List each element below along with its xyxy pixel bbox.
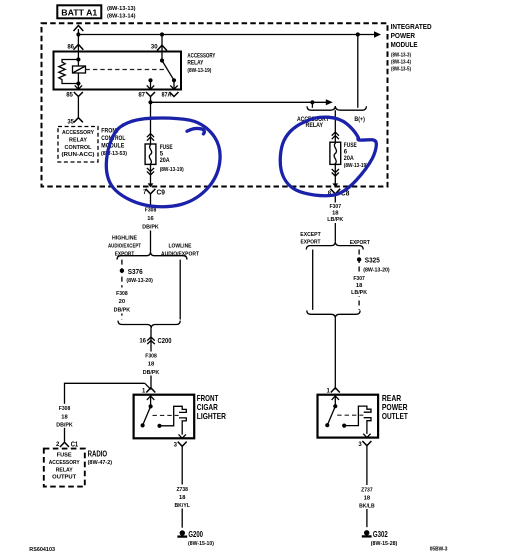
svg-text:ACCESSORY: ACCESSORY bbox=[49, 460, 80, 466]
svg-text:LB/PK: LB/PK bbox=[351, 290, 368, 296]
svg-text:F308: F308 bbox=[145, 354, 157, 360]
svg-text:OUTPUT: OUTPUT bbox=[52, 475, 77, 481]
svg-text:RADIO: RADIO bbox=[88, 450, 108, 459]
svg-text:AUDIO/EXCEPT: AUDIO/EXCEPT bbox=[108, 243, 141, 249]
svg-text:35: 35 bbox=[67, 120, 74, 126]
svg-text:(8W-13-14): (8W-13-14) bbox=[107, 14, 136, 20]
svg-text:(8W-13-20): (8W-13-20) bbox=[126, 278, 153, 284]
svg-text:(8W-15-28): (8W-15-28) bbox=[371, 541, 398, 547]
svg-text:ACCESSORY: ACCESSORY bbox=[62, 130, 94, 136]
svg-text:G200: G200 bbox=[188, 530, 203, 539]
svg-text:INTEGRATED: INTEGRATED bbox=[391, 22, 432, 31]
svg-text:RELAY: RELAY bbox=[306, 122, 324, 129]
svg-text:FUSE: FUSE bbox=[344, 143, 357, 149]
svg-text:DB/PK: DB/PK bbox=[56, 422, 73, 428]
svg-text:85: 85 bbox=[66, 93, 73, 99]
svg-text:EXPORT: EXPORT bbox=[350, 240, 370, 246]
svg-text:(8W-13-13): (8W-13-13) bbox=[107, 6, 136, 12]
svg-text:RS604103: RS604103 bbox=[29, 547, 55, 553]
svg-text:16: 16 bbox=[139, 339, 146, 345]
svg-text:Z738: Z738 bbox=[176, 487, 188, 493]
svg-text:30: 30 bbox=[151, 44, 158, 50]
svg-text:87A: 87A bbox=[162, 93, 173, 99]
svg-text:18: 18 bbox=[179, 495, 186, 501]
svg-text:86: 86 bbox=[67, 44, 74, 50]
svg-text:B(+): B(+) bbox=[354, 116, 365, 123]
svg-text:F308: F308 bbox=[145, 207, 157, 213]
svg-text:F308: F308 bbox=[116, 291, 128, 297]
svg-text:EXPORT: EXPORT bbox=[115, 251, 135, 257]
svg-text:(8W-13-3): (8W-13-3) bbox=[391, 53, 411, 59]
svg-text:(8W-13-19): (8W-13-19) bbox=[187, 68, 211, 74]
svg-text:BATT A1: BATT A1 bbox=[61, 7, 97, 17]
svg-text:20: 20 bbox=[119, 299, 125, 305]
svg-text:EXCEPT: EXCEPT bbox=[300, 232, 321, 238]
svg-text:(8W-13-19): (8W-13-19) bbox=[344, 163, 368, 169]
svg-text:FUSE: FUSE bbox=[160, 145, 173, 151]
svg-text:87: 87 bbox=[138, 93, 145, 99]
svg-text:05BW-3: 05BW-3 bbox=[430, 546, 448, 552]
svg-text:DB/PK: DB/PK bbox=[114, 307, 131, 313]
svg-text:18: 18 bbox=[364, 496, 371, 502]
svg-text:HIGHLINE: HIGHLINE bbox=[112, 235, 137, 241]
svg-text:(8W-13-5): (8W-13-5) bbox=[391, 67, 411, 73]
svg-text:(8W-13-4): (8W-13-4) bbox=[391, 60, 411, 66]
svg-text:LOWLINE: LOWLINE bbox=[169, 243, 192, 249]
svg-text:(RUN-ACC): (RUN-ACC) bbox=[62, 152, 95, 158]
svg-text:C1: C1 bbox=[71, 439, 79, 448]
svg-text:RELAY: RELAY bbox=[56, 467, 73, 473]
svg-text:RELAY: RELAY bbox=[187, 59, 204, 66]
svg-text:DB/PK: DB/PK bbox=[143, 370, 160, 376]
svg-text:S376: S376 bbox=[128, 269, 143, 276]
svg-text:18: 18 bbox=[61, 414, 68, 420]
svg-text:(8W-13-20): (8W-13-20) bbox=[363, 267, 390, 273]
svg-text:(8W-13-19): (8W-13-19) bbox=[160, 167, 184, 173]
svg-text:F308: F308 bbox=[59, 406, 71, 412]
svg-text:EXPORT: EXPORT bbox=[301, 240, 321, 246]
svg-text:BK/LB: BK/LB bbox=[359, 504, 375, 510]
svg-text:DB/PK: DB/PK bbox=[142, 224, 159, 230]
svg-text:G302: G302 bbox=[373, 530, 388, 539]
svg-text:(8W-15-10): (8W-15-10) bbox=[188, 541, 214, 547]
svg-text:LIGHTER: LIGHTER bbox=[197, 411, 226, 421]
svg-text:MODULE: MODULE bbox=[101, 142, 124, 149]
svg-text:OUTLET: OUTLET bbox=[382, 411, 409, 421]
svg-text:(8W-47-2): (8W-47-2) bbox=[88, 460, 113, 466]
svg-text:S325: S325 bbox=[365, 258, 380, 265]
svg-text:18: 18 bbox=[356, 283, 363, 289]
svg-text:C9: C9 bbox=[157, 188, 166, 197]
svg-text:16: 16 bbox=[147, 216, 154, 222]
svg-text:LB/PK: LB/PK bbox=[327, 217, 344, 223]
svg-text:RELAY: RELAY bbox=[69, 138, 87, 144]
svg-text:F307: F307 bbox=[330, 204, 342, 210]
svg-text:POWER: POWER bbox=[391, 31, 416, 40]
svg-text:18: 18 bbox=[332, 210, 339, 216]
svg-text:20A: 20A bbox=[160, 158, 171, 164]
svg-text:18: 18 bbox=[148, 362, 155, 368]
svg-text:(8W-13-53): (8W-13-53) bbox=[101, 151, 127, 157]
svg-text:C200: C200 bbox=[158, 336, 172, 345]
svg-text:CONTROL: CONTROL bbox=[65, 145, 93, 151]
svg-text:FUSE: FUSE bbox=[57, 452, 72, 458]
svg-text:20A: 20A bbox=[344, 156, 355, 162]
svg-text:AUDIO/EXPORT: AUDIO/EXPORT bbox=[161, 251, 199, 257]
svg-text:BK/YL: BK/YL bbox=[174, 503, 190, 509]
svg-text:F307: F307 bbox=[353, 276, 365, 282]
svg-text:Z737: Z737 bbox=[361, 488, 373, 494]
svg-text:MODULE: MODULE bbox=[391, 40, 418, 49]
